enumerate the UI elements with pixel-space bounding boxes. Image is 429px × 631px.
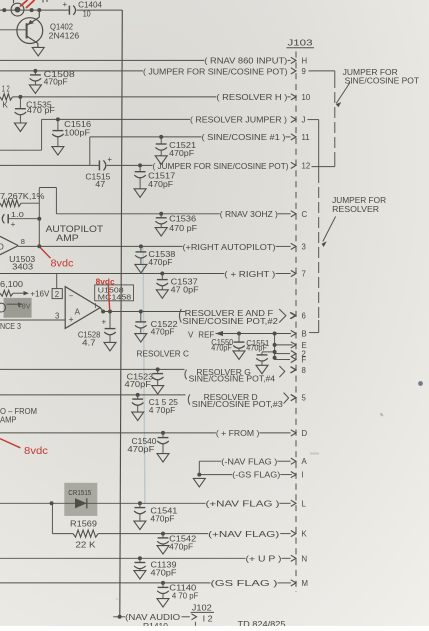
svg-text:AMP: AMP: [0, 415, 17, 425]
svg-text:+16V: +16V: [30, 289, 49, 299]
svg-text:3: 3: [55, 312, 59, 321]
svg-text:470pF: 470pF: [148, 179, 173, 189]
svg-text:7: 7: [302, 270, 306, 279]
svg-text:7,267K,1%: 7,267K,1%: [0, 191, 45, 201]
svg-text:3403: 3403: [12, 262, 33, 272]
svg-text:( RNAV 860 INPUT): ( RNAV 860 INPUT): [204, 56, 287, 65]
svg-text:NCE 3: NCE 3: [0, 321, 21, 331]
svg-text:( RESOLVER H ): ( RESOLVER H ): [216, 93, 287, 102]
svg-text:I: I: [94, 301, 96, 310]
svg-text:470pF: 470pF: [44, 77, 68, 87]
svg-text:470 pF: 470 pF: [169, 223, 197, 233]
svg-text:+: +: [11, 220, 16, 229]
svg-text:1 2: 1 2: [2, 83, 10, 93]
svg-text:H: H: [302, 56, 308, 65]
svg-text:8vdc: 8vdc: [24, 445, 48, 457]
svg-text:K: K: [302, 530, 308, 539]
svg-text:8: 8: [21, 237, 25, 246]
svg-text:( + RIGHT ): ( + RIGHT ): [224, 270, 275, 279]
svg-text:K: K: [3, 101, 9, 110]
svg-text:( JUMPER FOR SINE/COSINE POT): ( JUMPER FOR SINE/COSINE POT): [143, 67, 288, 76]
svg-text:470pF: 470pF: [150, 513, 174, 523]
svg-text:( + FROM ): ( + FROM ): [216, 429, 260, 438]
svg-text:SINE/COSINE POT,#3: SINE/COSINE POT,#3: [192, 400, 284, 409]
svg-text:A: A: [75, 308, 81, 317]
svg-text:J: J: [302, 115, 306, 124]
svg-text:22 K: 22 K: [76, 539, 97, 549]
svg-text:6: 6: [302, 312, 306, 321]
svg-text:M: M: [302, 579, 309, 588]
svg-text:470pF: 470pF: [148, 257, 172, 267]
svg-text:47: 47: [95, 179, 105, 189]
svg-text:8vdc: 8vdc: [96, 276, 115, 286]
svg-text:470pF: 470pF: [211, 343, 232, 353]
svg-text:R1569: R1569: [70, 518, 97, 528]
svg-text:( RESOLVER JUMPER ): ( RESOLVER JUMPER ): [190, 116, 287, 125]
svg-text:MC1458: MC1458: [98, 292, 132, 301]
svg-text:5: 5: [302, 394, 307, 403]
svg-text:470pF: 470pF: [125, 379, 152, 389]
svg-text:F: F: [302, 356, 307, 365]
svg-text:RESOLVER C: RESOLVER C: [137, 348, 190, 358]
svg-text:(GS FLAG ): (GS FLAG ): [211, 579, 279, 588]
svg-text:D: D: [302, 429, 308, 438]
svg-text:JUMPER FOR: JUMPER FOR: [332, 196, 386, 205]
svg-text:B: B: [302, 330, 307, 339]
svg-text:D: D: [0, 243, 4, 252]
svg-text:−: −: [69, 292, 74, 301]
svg-text:RESOLVER: RESOLVER: [332, 205, 379, 214]
svg-text:+: +: [107, 155, 112, 164]
svg-text:12: 12: [302, 161, 311, 170]
svg-text:470 pF: 470 pF: [27, 105, 55, 115]
svg-text:3: 3: [302, 242, 306, 251]
svg-text:+8V: +8V: [18, 301, 31, 310]
svg-text:100pF: 100pF: [64, 128, 90, 138]
svg-text:+: +: [63, 0, 68, 9]
svg-text:( RNAV 3OHZ ): ( RNAV 3OHZ ): [220, 210, 278, 219]
svg-text:470pF: 470pF: [151, 326, 175, 336]
svg-text:6,100: 6,100: [0, 279, 23, 289]
svg-text:C: C: [302, 210, 308, 219]
svg-text:(+NAV FLAG): (+NAV FLAG): [208, 530, 280, 539]
svg-text:( JUMPER FOR SINE/COSINE POT): ( JUMPER FOR SINE/COSINE POT): [153, 162, 289, 171]
svg-text:(+RIGHT AUTOPILOT): (+RIGHT AUTOPILOT): [183, 243, 276, 252]
svg-text:2: 2: [55, 290, 59, 299]
svg-text:SINE/COSINE POT,#2: SINE/COSINE POT,#2: [182, 317, 278, 326]
svg-text:470pF: 470pF: [127, 444, 154, 454]
svg-text:I 2: I 2: [203, 613, 213, 623]
svg-text:11: 11: [302, 133, 310, 142]
svg-text:4.7: 4.7: [82, 337, 96, 347]
svg-text:47 0pF: 47 0pF: [171, 284, 199, 294]
svg-text:470pF: 470pF: [246, 343, 266, 353]
svg-text:( SINE/COSINE #1 ): ( SINE/COSINE #1 ): [202, 133, 286, 142]
svg-text:8: 8: [302, 366, 306, 375]
svg-text:SINE/COSINE POT: SINE/COSINE POT: [345, 76, 420, 85]
svg-text:SINE/COSINE POT,#4: SINE/COSINE POT,#4: [189, 375, 276, 384]
svg-text:(+NAV FLAG ): (+NAV FLAG ): [206, 500, 281, 509]
svg-text:AMP: AMP: [56, 233, 78, 244]
svg-text:I: I: [302, 471, 304, 480]
svg-text:J102: J102: [192, 603, 212, 613]
svg-text:+: +: [69, 314, 74, 324]
svg-text:V: V: [188, 331, 194, 340]
svg-text:E: E: [302, 341, 307, 350]
svg-text:(+ U P ): (+ U P ): [246, 555, 282, 564]
svg-text:J103: J103: [288, 38, 313, 48]
svg-text:2N4126: 2N4126: [49, 30, 80, 40]
svg-text:L: L: [302, 499, 307, 508]
svg-text:A: A: [302, 457, 308, 466]
svg-text:470pF: 470pF: [151, 568, 177, 578]
svg-text:9: 9: [302, 67, 306, 76]
svg-text:8vdc: 8vdc: [51, 259, 74, 270]
svg-text:10: 10: [302, 93, 311, 102]
svg-text:4 70pF: 4 70pF: [149, 405, 176, 415]
svg-text:(-GS FLAG): (-GS FLAG): [232, 471, 280, 480]
svg-text:CR1515: CR1515: [68, 488, 91, 497]
svg-text:TD 824/825: TD 824/825: [238, 619, 286, 626]
svg-text:N: N: [302, 554, 308, 563]
svg-text:+: +: [102, 317, 107, 326]
svg-text:470pF: 470pF: [169, 148, 194, 158]
svg-text:R1410: R1410: [143, 621, 168, 626]
svg-text:(-NAV FLAG ): (-NAV FLAG ): [221, 457, 277, 466]
svg-text:4 70 pF: 4 70 pF: [172, 591, 199, 601]
svg-text:470pF: 470pF: [169, 541, 193, 551]
svg-text:1.0: 1.0: [11, 210, 24, 219]
